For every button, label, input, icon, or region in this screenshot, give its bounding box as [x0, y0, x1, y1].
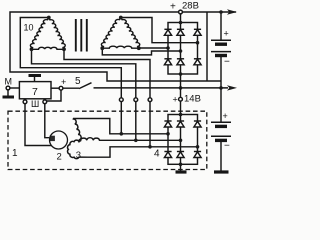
terminal +28V: [179, 10, 183, 14]
wire battery GB1 top feed: [220, 12, 222, 40]
terminal Sh2: [43, 100, 47, 104]
node W1 bottom-left: [30, 47, 34, 51]
terminal M: [6, 86, 10, 90]
battery GB1 plate3: [211, 51, 231, 53]
svg-text:1: 1: [12, 148, 18, 159]
terminal switch input: [59, 86, 63, 90]
winding W2 phase A wire: [121, 18, 198, 43]
svg-text:28В: 28В: [182, 0, 199, 11]
junction bus C tap: [148, 145, 152, 149]
svg-text:+: +: [224, 29, 229, 39]
junction U2 phase right: [196, 145, 200, 149]
svg-text:+: +: [223, 111, 228, 121]
winding W2 phase B wire: [102, 48, 180, 55]
wire U2 center column: [180, 115, 182, 165]
wire Sh1 to brush: [25, 104, 52, 146]
svg-text:+: +: [61, 77, 66, 87]
winding W1 delta left side: [30, 18, 48, 50]
wire +14V rail: [94, 87, 229, 89]
field winding 3 branch right: [80, 138, 100, 141]
battery GB1 plate1: [211, 39, 231, 41]
node W2 bottom-left: [100, 46, 104, 50]
junction U2 bottom: [179, 163, 183, 167]
diode VD10: [164, 151, 171, 153]
winding W2 delta bottom side: [102, 46, 139, 48]
junction U1 bottom: [179, 72, 183, 76]
field winding 3 branch up: [73, 119, 81, 141]
switch S1 blade: [79, 83, 92, 89]
junction battery top: [219, 10, 223, 14]
diode VD7: [164, 120, 171, 122]
diode VD12: [194, 151, 201, 153]
wire +28V rail and generator frame: [10, 12, 236, 81]
diode VD9: [194, 120, 201, 122]
diode VD11: [177, 151, 184, 153]
junction bus A tap: [120, 132, 124, 136]
wire U1 center column: [180, 23, 182, 75]
connector X3: [148, 98, 152, 102]
junction U1 phase right: [196, 41, 200, 45]
brush block: [50, 136, 55, 141]
wire branch 28V rail down: [206, 12, 208, 81]
node W1 bottom-right: [62, 47, 66, 51]
stator core lines: [76, 19, 87, 52]
ground regulator stem: [34, 76, 36, 82]
wire GB1 bottom: [220, 57, 222, 88]
diode VD2: [177, 28, 184, 30]
battery GB2 plate2: [215, 125, 227, 128]
winding W1 delta bottom side: [32, 47, 65, 49]
svg-text:2: 2: [57, 152, 62, 163]
phase line B: [100, 139, 181, 141]
switch S1 input wire: [51, 87, 59, 89]
svg-text:−: −: [224, 141, 230, 152]
diode VD6: [194, 58, 201, 60]
battery GB2 plate4: [215, 139, 227, 142]
junction U2 phase mid: [179, 139, 183, 143]
winding W1 phase A bus: [20, 18, 121, 134]
dashed generator box 1: [8, 111, 207, 169]
node arrow +14V: [227, 85, 237, 90]
node W2 apex: [119, 16, 123, 20]
battery GB2 plate1: [211, 121, 231, 123]
svg-text:3: 3: [76, 150, 81, 161]
battery GB1 plate4: [215, 54, 227, 57]
svg-text:14В: 14В: [184, 94, 201, 105]
winding W2 delta right side: [121, 18, 140, 49]
field coil top wire and phase line A: [73, 119, 168, 134]
svg-text:−: −: [224, 57, 230, 68]
ground U2 bar: [176, 170, 187, 173]
connector X1: [119, 98, 123, 102]
winding W1 delta right side: [49, 18, 65, 50]
ground regulator bar: [29, 74, 42, 77]
svg-text:Ш: Ш: [31, 99, 39, 109]
terminal Sh1: [24, 99, 26, 100]
svg-text:М: М: [5, 76, 13, 86]
rectifier U1 frame: [168, 23, 198, 75]
phase line C: [88, 147, 198, 157]
diode VD3: [194, 28, 201, 30]
wire GB2 bottom: [220, 142, 222, 172]
junction U1 phase left: [166, 46, 170, 50]
svg-text:5: 5: [75, 76, 81, 87]
junction U2 phase left: [166, 132, 170, 136]
diode VD4: [164, 58, 171, 60]
node W1 apex: [47, 16, 51, 20]
ground U2 stem: [180, 164, 182, 171]
field winding 3 branch lower hook: [68, 140, 88, 158]
battery GB2 plate3: [211, 135, 231, 137]
wire U1 minus down to U2 plus: [180, 74, 182, 115]
node W2 bottom-right: [137, 46, 141, 50]
node arrow +28V: [227, 9, 237, 14]
winding W1 phase C bus: [64, 49, 150, 147]
svg-text:10: 10: [24, 23, 34, 33]
wire GB2 top: [220, 88, 222, 122]
connector X2: [134, 98, 138, 102]
svg-text:7: 7: [32, 86, 38, 98]
battery GB1 plate2: [215, 43, 227, 46]
rectifier U2 frame: [168, 115, 198, 165]
ground M bar: [3, 96, 15, 99]
junction rectifier minus to rail: [179, 86, 183, 90]
wire switch terminal to Sh2: [47, 90, 61, 101]
ground M stem: [7, 90, 9, 97]
switch S1 pivot wire: [63, 87, 79, 89]
wire Sh2 to brush: [45, 104, 50, 138]
svg-text:+: +: [170, 1, 176, 12]
terminal +14V: [179, 97, 183, 101]
ground GB2 bar: [214, 170, 229, 173]
regulator box 7: [19, 82, 51, 99]
junction U2 top: [179, 113, 183, 117]
diode VD1: [164, 28, 171, 30]
junction field star point: [79, 139, 82, 142]
diode VD5: [177, 58, 184, 60]
junction battery link to rail: [219, 86, 223, 90]
winding W2 phase C wire: [139, 47, 168, 49]
wire rectifier U1 plus feed: [180, 14, 182, 23]
svg-text:+: +: [173, 95, 178, 105]
winding W2 delta left side: [101, 18, 120, 49]
svg-text:4: 4: [154, 149, 160, 160]
wire M to regulator: [10, 87, 20, 89]
junction bus B tap: [134, 139, 138, 143]
rotor slip rings 2: [50, 131, 68, 149]
diode VD8: [177, 120, 184, 122]
junction U1 phase mid: [179, 49, 183, 53]
junction U1 top: [179, 21, 183, 25]
winding W1 phase B bus: [32, 49, 136, 140]
